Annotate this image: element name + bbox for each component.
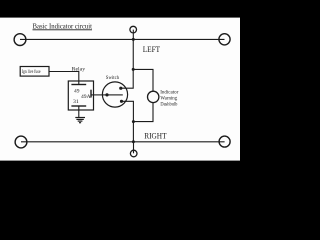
connector to supply (bottom) — [130, 150, 137, 157]
svg-text:49A: 49A — [81, 94, 91, 100]
terminal front-left — [14, 34, 26, 46]
svg-text:Switch: Switch — [106, 75, 120, 81]
wire 31 to ground — [78, 106, 80, 117]
svg-text:49: 49 — [74, 89, 80, 95]
svg-text:LEFT: LEFT — [143, 45, 161, 54]
svg-text:Dashbulb: Dashbulb — [160, 102, 177, 108]
ground — [75, 118, 85, 123]
wire bottom rail — [21, 141, 225, 143]
svg-text:Indicator: Indicator — [160, 89, 178, 95]
connector to supply (top) — [130, 26, 137, 33]
terminal front-right — [219, 34, 230, 45]
junction bulb branch top — [132, 68, 135, 71]
white drawing area — [0, 18, 240, 161]
junction bulb branch bottom — [132, 120, 135, 123]
junction on top rail — [132, 38, 135, 41]
indicator warning dashbulb — [148, 91, 159, 102]
wire switch upper contact to left rail branch — [121, 69, 133, 88]
label Indicator Warning Dashbulb — [160, 89, 178, 107]
fuse box Ign live fuse — [20, 67, 49, 77]
title: Basic Indicator circuit — [33, 21, 93, 30]
switch upper contact — [119, 87, 122, 90]
terminal rear-left — [15, 136, 27, 148]
wire switch lower contact to right rail branch — [122, 101, 134, 142]
flasher relay box — [68, 81, 93, 110]
switch common contact — [105, 93, 108, 96]
switch lower contact — [120, 100, 123, 103]
svg-text:Ign live fuse: Ign live fuse — [22, 68, 41, 75]
svg-text:Basic Indicator circuit: Basic Indicator circuit — [33, 21, 93, 30]
wire top rail — [20, 38, 225, 40]
wire fuse to flasher pin 49 — [49, 72, 79, 85]
terminal rear-right — [219, 136, 230, 147]
wire 49A to switch — [91, 94, 107, 96]
wire bulb bottom — [133, 103, 153, 122]
wire top connector stub — [132, 30, 134, 40]
wire main vertical top-rail to bulb branch — [132, 39, 134, 69]
wire bulb branch top — [133, 69, 153, 91]
junction on bottom rail — [132, 140, 135, 143]
switch wiper — [107, 94, 123, 96]
wire bottom connector stub — [133, 142, 135, 154]
switch body — [102, 82, 127, 107]
svg-text:31: 31 — [73, 99, 79, 105]
pin 49 plate — [71, 84, 86, 86]
svg-text:RIGHT: RIGHT — [144, 132, 166, 141]
pin 31 plate — [71, 105, 86, 107]
pin 49A plate — [90, 90, 92, 98]
